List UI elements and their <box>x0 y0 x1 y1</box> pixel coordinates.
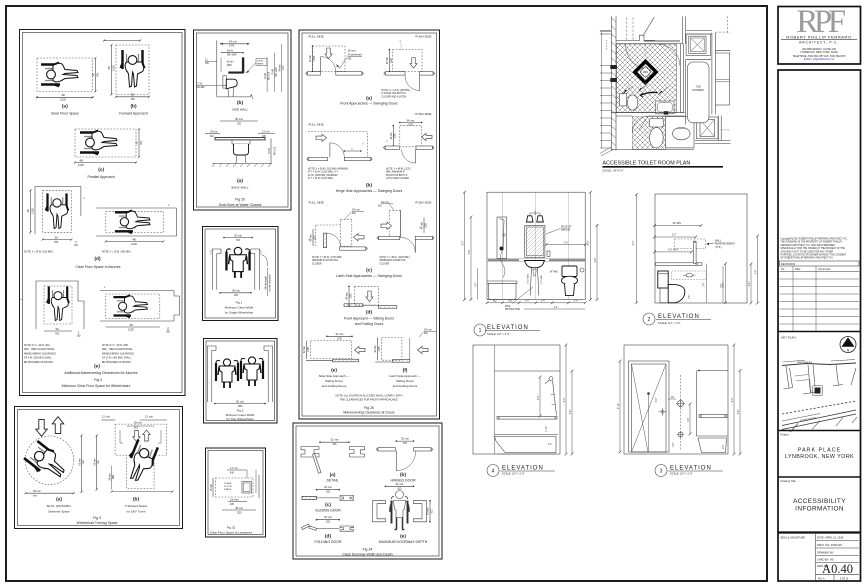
svg-text:292 BROADWAY, SUITE 200: 292 BROADWAY, SUITE 200 <box>802 47 836 51</box>
label <box>474 324 486 336</box>
svg-text:CLOSER AND A LATCH.: CLOSER AND A LATCH. <box>382 95 408 98</box>
svg-text:OF ROBERT PHILLIP FERRARO ARCH: OF ROBERT PHILLIP FERRARO ARCHITECT, P.C… <box>781 257 835 260</box>
label <box>487 465 499 477</box>
lower right sink room <box>665 117 694 148</box>
svg-text:24 preferred: 24 preferred <box>348 53 363 57</box>
(e) additional maneuvering clearances <box>20 281 180 388</box>
svg-text:8'-0": 8'-0" <box>588 241 590 246</box>
svg-text:1'-10": 1'-10" <box>546 426 548 432</box>
svg-text:39-41: 39-41 <box>227 51 234 53</box>
svg-text:(c): (c) <box>366 268 372 274</box>
top right closet <box>686 34 710 55</box>
svg-text:1'-5": 1'-5" <box>475 283 477 288</box>
svg-text:PROTECTION: PROTECTION <box>505 309 520 311</box>
svg-text:1'-4": 1'-4" <box>688 418 690 423</box>
svg-text:24 min: 24 min <box>424 328 432 332</box>
T-shaped space <box>94 415 178 514</box>
svg-text:NOTE: Y = 48 IN. (1220: NOTE: Y = 48 IN. (1220 <box>386 169 411 171</box>
bottom wall of room <box>611 112 684 114</box>
dashed turning circle <box>629 76 646 93</box>
svg-text:12 min: 12 min <box>145 415 153 419</box>
right dims <box>750 264 752 303</box>
svg-text:KEY PLAN: KEY PLAN <box>781 336 796 340</box>
(d) clear floor space in alcoves <box>24 187 177 270</box>
svg-text:1220: 1220 <box>60 98 66 102</box>
svg-text:1525: 1525 <box>314 55 316 61</box>
svg-text:32 min: 32 min <box>324 515 332 519</box>
svg-text:OF 6 IN. (150 MM.) SHALL: OF 6 IN. (150 MM.) SHALL <box>24 357 52 360</box>
svg-text:(d): (d) <box>325 534 332 540</box>
svg-text:NOTE: X ≤ 15 IN. (380 MM.): NOTE: X ≤ 15 IN. (380 MM.) <box>102 251 131 254</box>
svg-text:48 min: 48 min <box>235 506 243 510</box>
right dims <box>590 192 592 299</box>
svg-text:PUSH SIDE: PUSH SIDE <box>415 201 431 205</box>
(e) maximum doorway depth <box>373 482 434 544</box>
lavatory <box>525 261 545 268</box>
svg-text:30 min: 30 min <box>211 483 213 491</box>
svg-text:48 min: 48 min <box>387 56 389 64</box>
toilet at left wall <box>620 93 627 106</box>
svg-text:3: 3 <box>660 469 663 475</box>
left dim <box>619 361 621 452</box>
svg-text:BE PROVIDED AS SHOWN.: BE PROVIDED AS SHOWN. <box>102 361 132 364</box>
svg-text:INFORMATION: INFORMATION <box>795 506 844 513</box>
svg-text:LYNBROOK, NEW YORK: LYNBROOK, NEW YORK <box>785 454 854 460</box>
chair rail strip <box>487 258 585 260</box>
svg-text:Fig 25: Fig 25 <box>364 406 374 410</box>
svg-text:32 min: 32 min <box>234 233 242 237</box>
svg-text:33-36: 33-36 <box>269 147 271 154</box>
svg-text:Sliding Doors: Sliding Doors <box>396 379 414 383</box>
toilet side view <box>658 271 685 303</box>
wall reinforcement dashed box + note <box>675 239 706 249</box>
svg-text:2'-5" MIN.: 2'-5" MIN. <box>541 274 543 284</box>
(c) sliding door <box>302 485 354 512</box>
svg-text:12 min: 12 min <box>102 415 110 419</box>
svg-text:1220: 1220 <box>391 57 393 63</box>
svg-text:CLEAR: CLEAR <box>224 482 232 485</box>
inner dim <box>539 377 541 416</box>
svg-text:24 min: 24 min <box>210 129 218 133</box>
svg-text:HINGED DOOR: HINGED DOOR <box>390 478 416 482</box>
svg-text:2'-2": 2'-2" <box>723 283 725 288</box>
svg-text:DRAWING BY:: DRAWING BY: <box>817 551 834 555</box>
svg-text:Additional Maneuvering Clear: Additional Maneuvering Clearances for Al… <box>64 371 138 375</box>
svg-text:54 min: 54 min <box>336 332 344 336</box>
svg-text:NOTE: IF X > 15 IN. (380: NOTE: IF X > 15 IN. (380 <box>102 344 129 347</box>
svg-text:NOTE: X ≤ 24 IN. (610 MM.): NOTE: X ≤ 24 IN. (610 MM.) <box>24 251 53 254</box>
svg-text:30: 30 <box>135 141 139 145</box>
svg-text:8'-0": 8'-0" <box>564 398 566 403</box>
svg-text:60-IN. (1525-MM.): 60-IN. (1525-MM.) <box>47 504 72 508</box>
svg-text:MIRROR: MIRROR <box>561 230 571 232</box>
sections (e)/(f) slide and latch side sliding doors <box>304 328 436 389</box>
svg-text:12 min: 12 min <box>262 129 270 133</box>
right side extension walls <box>715 50 730 53</box>
svg-text:840-915: 840-915 <box>269 71 271 80</box>
tub front <box>487 281 517 300</box>
slide bar with shower head <box>545 377 557 416</box>
svg-text:mm: mm <box>33 495 37 497</box>
svg-text:T-Shaped Space: T-Shaped Space <box>125 504 148 508</box>
vanity lavatory <box>656 101 674 114</box>
(b) right <box>400 122 422 124</box>
toilet front view <box>562 266 578 296</box>
svg-text:Copyright©2019, ROBERT PHILLIP: Copyright©2019, ROBERT PHILLIP FERRARO A… <box>781 238 849 241</box>
(b) hinged door <box>376 437 432 483</box>
tub <box>495 434 559 436</box>
svg-text:60 min: 60 min <box>94 458 96 466</box>
svg-text:DATE: APRIL 16, 2019: DATE: APRIL 16, 2019 <box>817 536 844 540</box>
(a) clear floor space <box>36 57 100 116</box>
left dim <box>636 195 638 303</box>
svg-text:6'-4": 6'-4" <box>738 410 740 415</box>
shower stall <box>696 117 718 139</box>
svg-text:SCALE: 1/2" = 1'-0": SCALE: 1/2" = 1'-0" <box>670 472 693 476</box>
svg-text:1'-4": 1'-4" <box>541 301 546 303</box>
svg-text:Fig 24: Fig 24 <box>363 548 373 552</box>
svg-text:840-915: 840-915 <box>274 146 276 155</box>
svg-text:1065: 1065 <box>395 133 397 139</box>
svg-text:760: 760 <box>55 332 60 336</box>
svg-text:48: 48 <box>107 66 111 70</box>
(b) forward approach <box>103 40 150 116</box>
svg-text:30: 30 <box>54 235 58 239</box>
svg-text:Fig 32: Fig 32 <box>227 526 236 530</box>
svg-text:1220: 1220 <box>236 512 242 514</box>
svg-text:IF DOOR HAS BOTH A: IF DOOR HAS BOTH A <box>382 92 406 95</box>
key plan map <box>782 360 857 433</box>
svg-text:ROBERT PHILLIP FERRARO: ROBERT PHILLIP FERRARO <box>786 35 851 40</box>
svg-text:760: 760 <box>54 240 59 244</box>
svg-text:30: 30 <box>55 327 59 331</box>
svg-text:and Folding Doors: and Folding Doors <box>355 322 384 326</box>
svg-text:32 min: 32 min <box>331 438 339 442</box>
svg-text:760: 760 <box>130 97 135 101</box>
svg-text:Sliding Doors: Sliding Doors <box>325 379 343 383</box>
svg-text:54 min: 54 min <box>279 64 281 72</box>
svg-text:2'-3": 2'-3" <box>672 235 677 237</box>
svg-text:Front Approach — Sliding D: Front Approach — Sliding Doors <box>344 317 394 321</box>
svg-text:2'-10" MAX.: 2'-10" MAX. <box>527 273 530 284</box>
svg-text:SITE AND IS NOT TO BE USED FOR: SITE AND IS NOT TO BE USED FOR ANY OTHER <box>781 250 834 253</box>
svg-text:Fig 1: Fig 1 <box>236 301 243 305</box>
revisions table <box>780 261 860 332</box>
svg-text:15-48: 15-48 <box>272 68 274 75</box>
svg-text:NOTE: IF X > 24 IN. (610: NOTE: IF X > 24 IN. (610 <box>24 344 51 347</box>
svg-text:PULL SIDE: PULL SIDE <box>309 123 324 127</box>
top wall <box>616 35 655 40</box>
section (a) front approaches <box>306 35 435 106</box>
svg-text:60 min: 60 min <box>236 399 244 403</box>
svg-text:PULL SIDE: PULL SIDE <box>309 35 324 39</box>
seal & signature section <box>778 531 861 533</box>
svg-text:2'-2": 2'-2" <box>749 282 751 287</box>
(a) detail <box>301 438 365 483</box>
svg-text:(b): (b) <box>133 497 140 503</box>
svg-text:IF Y = 54 IN. (1370 MM.).: IF Y = 54 IN. (1370 MM.). <box>308 178 334 180</box>
door with cross brace <box>629 361 670 452</box>
svg-text:60 min: 60 min <box>310 54 312 62</box>
svg-text:(b): (b) <box>237 100 244 106</box>
svg-text:HEMPSTEAD AVE: HEMPSTEAD AVE <box>797 361 813 364</box>
svg-text:1220: 1220 <box>131 242 137 246</box>
svg-text:(a): (a) <box>330 472 336 478</box>
dim mirror to toilet <box>546 244 585 246</box>
svg-text:1065: 1065 <box>379 346 381 352</box>
svg-text:PUSH SIDE: PUSH SIDE <box>415 112 431 116</box>
svg-text:1370: 1370 <box>229 46 235 48</box>
svg-text:IF Y = 60 IN. (1525 MM.), X: IF Y = 60 IN. (1525 MM.), X = <box>308 172 339 174</box>
svg-text:6'-0": 6'-0" <box>633 241 635 246</box>
svg-text:(c): (c) <box>98 167 104 173</box>
svg-text:Clear Floor Space: Clear Floor Space <box>51 112 79 116</box>
svg-text:SLIDING DOOR: SLIDING DOOR <box>315 509 341 513</box>
svg-text:Minimum Clear Width: Minimum Clear Width <box>225 306 254 310</box>
svg-text:WALL: WALL <box>715 240 722 243</box>
svg-text:42 min: 42 min <box>304 345 306 353</box>
svg-text:MM.), THEN AN ADDITIONAL: MM.), THEN AN ADDITIONAL <box>24 348 55 351</box>
project section <box>778 430 861 432</box>
svg-text:6'-4": 6'-4" <box>469 250 471 255</box>
svg-text:24 min: 24 min <box>352 208 360 212</box>
svg-text:PIPE: PIPE <box>505 306 511 308</box>
svg-text:48: 48 <box>61 93 65 97</box>
svg-text:(e): (e) <box>94 364 100 370</box>
svg-text:for min clearance: for min clearance <box>268 273 271 291</box>
svg-text:and Folding Doors: and Folding Doors <box>393 384 418 388</box>
svg-text:LATCH AND CLOSER.: LATCH AND CLOSER. <box>386 177 410 180</box>
svg-text:SCALE: 1/2" = 1'-0": SCALE: 1/2" = 1'-0" <box>487 332 510 336</box>
svg-text:FERRARO ARCHITECT, P.C. AND WA: FERRARO ARCHITECT, P.C. AND WAS PREPARED <box>781 244 836 247</box>
svg-text:NOTE: Y = 54 IN. (1370 MM.): NOTE: Y = 54 IN. (1370 MM.) <box>312 257 342 259</box>
svg-text:MM: MM <box>113 475 115 479</box>
svg-text:FLOOR: FLOOR <box>224 486 232 488</box>
svg-text:and Folding Doors: and Folding Doors <box>322 384 347 388</box>
svg-text:PAPER: PAPER <box>257 63 264 66</box>
svg-text:TELEPHONE: (516) 599-3787: TELEPHONE: (516) 599-3787 FAX: (516) 599… <box>793 55 847 58</box>
leader arrowheads <box>622 90 627 96</box>
(a) left: pull side <box>313 46 346 72</box>
svg-text:ACCESSIBLE TOILET ROOM PLAN: ACCESSIBLE TOILET ROOM PLAN <box>603 161 691 167</box>
lower middle hatch + toilet <box>632 117 665 150</box>
block arrows <box>36 420 48 437</box>
svg-text:6'-4": 6'-4" <box>595 258 597 263</box>
svg-text:33-36: 33-36 <box>265 72 267 79</box>
side wall diagram <box>196 40 285 112</box>
svg-text:(e): (e) <box>400 534 406 540</box>
tp holder + dim <box>686 273 692 277</box>
middle fixtures <box>680 375 682 450</box>
svg-text:ELEVATION: ELEVATION <box>670 466 712 472</box>
svg-text:(b): (b) <box>130 104 137 110</box>
svg-text:CHKD BY: HS: CHKD BY: HS <box>817 558 834 562</box>
svg-text:990-1040: 990-1040 <box>227 54 237 56</box>
key plan section <box>778 331 861 333</box>
svg-text:1525: 1525 <box>237 406 243 408</box>
floor drain diamond <box>635 61 656 82</box>
hatched tile floor <box>617 44 677 113</box>
svg-text:1220: 1220 <box>112 65 116 71</box>
svg-text:TOILET: TOILET <box>257 61 264 63</box>
svg-text:THIS DRAWING IS THE PROPERTY O: THIS DRAWING IS THE PROPERTY OF ROBERT P… <box>781 241 843 244</box>
svg-text:32 min: 32 min <box>401 437 409 441</box>
svg-text:2'-8": 2'-8" <box>755 270 757 275</box>
svg-text:(c): (c) <box>325 502 331 508</box>
svg-text:19 max: 19 max <box>230 497 239 501</box>
svg-text:60 min: 60 min <box>33 489 41 493</box>
svg-text:mm: mm <box>83 460 85 464</box>
svg-text:MANEUVERING CLEARANCE: MANEUVERING CLEARANCE <box>102 352 134 355</box>
svg-text:MM.), THEN AN ADDITIONAL: MM.), THEN AN ADDITIONAL <box>102 348 133 351</box>
svg-text:ARCHITECT, P.C.: ARCHITECT, P.C. <box>799 41 839 45</box>
svg-text:NOTE: ALL DOORS IN ALCOVES SH: NOTE: ALL DOORS IN ALCOVES SHALL COMPLY … <box>335 393 402 397</box>
svg-text:(a): (a) <box>62 104 68 110</box>
title block outer border <box>778 7 861 65</box>
svg-text:Parallel Approach: Parallel Approach <box>87 175 114 179</box>
svg-text:THE CLEARANCES FOR FRONT APPRO: THE CLEARANCES FOR FRONT APPROACHES. <box>340 398 399 402</box>
svg-text:ELEVATION: ELEVATION <box>487 325 529 331</box>
svg-text:36 min: 36 min <box>235 117 243 121</box>
svg-text:Diameter Space: Diameter Space <box>48 510 70 514</box>
svg-text:E-MAIL: rpf@rpfarchitects.net: E-MAIL: rpf@rpfarchitects.net <box>804 58 835 61</box>
svg-text:EDGE OF: EDGE OF <box>561 227 572 229</box>
svg-text:Clear Floor Space at Lavatorie: Clear Floor Space at Lavatories <box>210 531 253 535</box>
svg-text:SCALE: 1/2" = 1'-0": SCALE: 1/2" = 1'-0" <box>502 472 525 476</box>
svg-text:NOTE: Y = 48 IN. (1220 MM.): NOTE: Y = 48 IN. (1220 MM.) <box>380 257 410 259</box>
wall dim ticks <box>600 32 611 149</box>
svg-text:5 OF 16: 5 OF 16 <box>840 578 849 580</box>
svg-text:1370: 1370 <box>337 338 343 340</box>
svg-text:(a): (a) <box>237 178 243 184</box>
svg-text:42 min: 42 min <box>227 62 235 64</box>
svg-text:SCALE: 1/4"=1'-0": SCALE: 1/4"=1'-0" <box>603 169 624 173</box>
svg-text:SPACE: SPACE <box>224 488 232 491</box>
svg-text:(d): (d) <box>366 310 373 316</box>
right wall <box>712 33 716 115</box>
svg-text:LYNBROOK, NEW YORK 11563: LYNBROOK, NEW YORK 11563 <box>800 50 838 54</box>
svg-text:Fig 3: Fig 3 <box>93 516 101 520</box>
svg-text:1220: 1220 <box>128 328 134 332</box>
bottom walls <box>611 149 694 151</box>
door leaf above <box>643 17 654 35</box>
svg-text:1'-4": 1'-4" <box>525 301 530 303</box>
svg-text:PARK PLACE: PARK PLACE <box>798 448 841 454</box>
svg-text:BE PROVIDED AS SHOWN.: BE PROVIDED AS SHOWN. <box>24 361 54 364</box>
section (c) latch side approaches <box>308 200 434 278</box>
svg-text:CLOSER.: CLOSER. <box>312 263 322 265</box>
svg-text:SCALE: 1/2" = 1'-0": SCALE: 1/2" = 1'-0" <box>658 321 681 325</box>
svg-text:Date: Date <box>795 267 801 271</box>
svg-text:1065: 1065 <box>308 346 310 352</box>
right dims <box>733 345 735 454</box>
svg-text:1'-4": 1'-4" <box>574 301 579 303</box>
svg-text:14" MIN.: 14" MIN. <box>550 272 559 274</box>
svg-text:REVISIONS: REVISIONS <box>781 262 795 266</box>
section (d) front approach sliding doors <box>344 286 397 327</box>
lower door swing <box>639 116 649 130</box>
svg-text:54 min: 54 min <box>407 118 415 122</box>
svg-text:Forward Approach: Forward Approach <box>119 112 148 116</box>
svg-text:DOOR HAS BOTH A: DOOR HAS BOTH A <box>386 174 408 177</box>
svg-text:FIG: A: FIG: A <box>818 577 825 580</box>
svg-text:430-485: 430-485 <box>196 87 205 89</box>
drawing title section <box>778 476 861 478</box>
svg-text:A0.40: A0.40 <box>822 562 853 576</box>
svg-text:Slide Side Approach —: Slide Side Approach — <box>319 374 350 378</box>
shower slide bar unit <box>497 217 507 278</box>
(d) folding door <box>302 515 354 544</box>
svg-text:(TYP.): (TYP.) <box>715 247 722 249</box>
svg-text:48: 48 <box>26 209 30 213</box>
svg-text:ACCESSIBILITY: ACCESSIBILITY <box>793 498 846 505</box>
svg-text:8'-0": 8'-0" <box>732 398 734 403</box>
svg-text:1'-5": 1'-5" <box>689 295 691 300</box>
svg-text:EQ.: EQ. <box>493 301 497 303</box>
svg-text:30: 30 <box>91 73 95 77</box>
svg-text:for Single Wheelchair: for Single Wheelchair <box>225 311 254 315</box>
bottom dims <box>487 302 585 304</box>
label <box>643 313 655 325</box>
svg-text:1'-8": 1'-8" <box>673 443 675 448</box>
svg-text:Latch Side Approach —: Latch Side Approach — <box>389 374 421 378</box>
grab bar <box>497 417 557 420</box>
svg-text:48: 48 <box>79 158 83 162</box>
svg-text:1: 1 <box>479 328 482 334</box>
svg-text:(e): (e) <box>331 368 337 374</box>
svg-text:CLOSER.: CLOSER. <box>380 263 390 265</box>
svg-text:2: 2 <box>648 317 651 323</box>
svg-text:30: 30 <box>131 93 135 97</box>
svg-text:Fig 29: Fig 29 <box>235 198 245 202</box>
svg-text:MINIMUM IF DOOR HAS: MINIMUM IF DOOR HAS <box>312 259 338 262</box>
svg-text:1220: 1220 <box>31 208 35 214</box>
(a) right: push side <box>393 50 423 72</box>
svg-text:MM.) MINIMUM IF: MM.) MINIMUM IF <box>386 172 405 174</box>
svg-text:Hinge Side Approaches — Sw: Hinge Side Approaches — Swinging Doors <box>336 189 403 193</box>
svg-text:2'-0": 2'-0" <box>564 242 569 244</box>
svg-text:Wheelchair Turning Space: Wheelchair Turning Space <box>76 521 117 525</box>
svg-text:(b): (b) <box>400 472 407 478</box>
tub <box>685 60 711 125</box>
svg-text:SEAL & SIGNATURE: SEAL & SIGNATURE <box>781 536 806 540</box>
wall box right of mirror <box>547 251 550 256</box>
left dims <box>464 192 466 299</box>
svg-text:Latch Side Approaches — Sw: Latch Side Approaches — Swinging Doors <box>336 274 402 278</box>
svg-text:1220: 1220 <box>78 163 84 167</box>
svg-text:6'-4": 6'-4" <box>570 410 572 415</box>
svg-text:(b): (b) <box>366 183 373 189</box>
svg-text:NOTE: X = 36 IN. (915 MM.) MI: NOTE: X = 36 IN. (915 MM.) MINIMUM <box>308 169 348 171</box>
svg-text:2'-4": 2'-4" <box>538 396 540 401</box>
svg-text:54 min: 54 min <box>229 40 237 44</box>
svg-text:32 min: 32 min <box>396 482 404 486</box>
svg-text:48: 48 <box>132 237 136 241</box>
svg-text:24 min depth: 24 min depth <box>264 276 267 290</box>
svg-text:OF 12 IN. (305 MM.) SHALL: OF 12 IN. (305 MM.) SHALL <box>102 357 132 360</box>
svg-text:4: 4 <box>492 469 495 475</box>
svg-text:ELEVATION: ELEVATION <box>502 466 544 472</box>
svg-text:17 min: 17 min <box>230 466 238 470</box>
svg-text:DETAIL: DETAIL <box>327 478 339 482</box>
sconce light <box>527 216 534 222</box>
svg-text:Minimum Clear Floor Space: Minimum Clear Floor Space for Wheelchair… <box>62 384 131 388</box>
svg-text:MINIMUM IF DOOR HAS: MINIMUM IF DOOR HAS <box>380 259 406 262</box>
svg-text:PULL SIDE: PULL SIDE <box>309 201 324 205</box>
svg-text:DRN: DRN <box>643 71 648 74</box>
svg-text:(d): (d) <box>94 256 101 262</box>
svg-text:48 min: 48 min <box>311 234 313 242</box>
